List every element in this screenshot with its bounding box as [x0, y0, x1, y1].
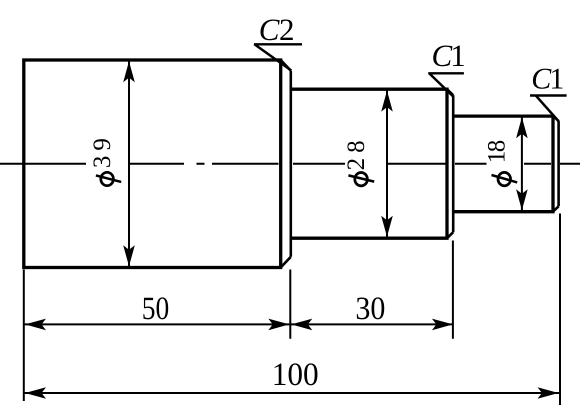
svg-text:28: 28 — [343, 135, 370, 170]
svg-text:C1: C1 — [531, 62, 563, 95]
svg-text:30: 30 — [355, 291, 385, 327]
svg-text:C1: C1 — [432, 38, 465, 73]
svg-text:100: 100 — [272, 357, 319, 393]
svg-text:C2: C2 — [259, 12, 294, 47]
svg-text:39: 39 — [89, 133, 116, 168]
svg-text:50: 50 — [142, 291, 170, 327]
svg-text:18: 18 — [483, 140, 510, 163]
